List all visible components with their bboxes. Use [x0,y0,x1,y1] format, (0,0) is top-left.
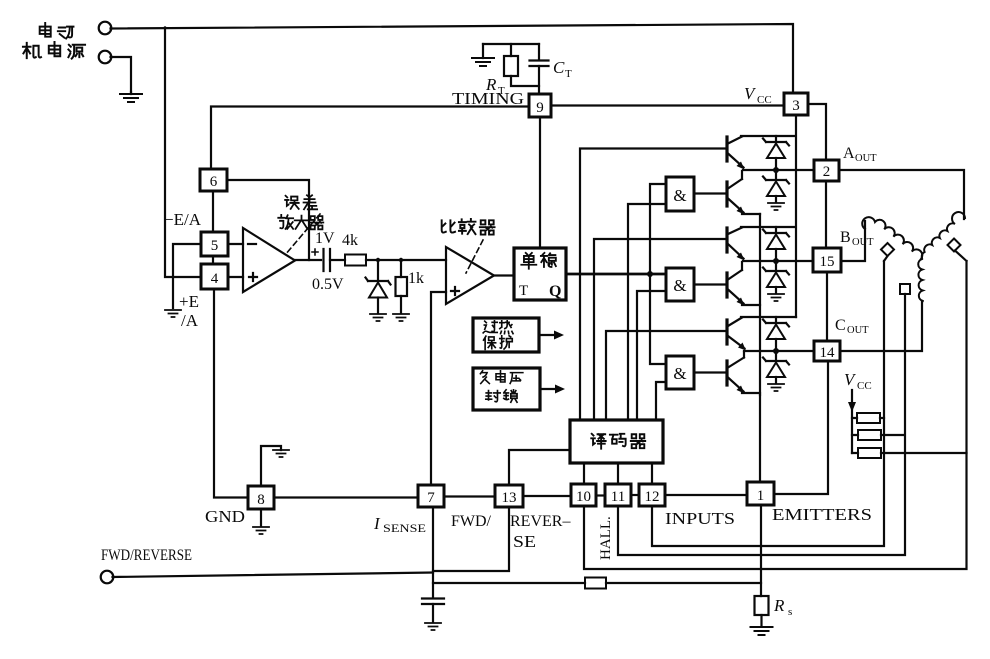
wire timing rail right to pin 3 [551,104,784,106]
pin 12 [639,484,665,506]
wire C output node line to pin 14 [744,350,814,352]
wire pin5-pin4 [212,256,214,264]
wire resistor to comparator [366,259,446,261]
zener DA2 [775,170,777,180]
resistor pullup R3 [858,448,881,458]
svg-text:13: 13 [502,490,517,506]
wire pin7 to pin13 [444,495,495,497]
wire pin 6 to timing rail [211,107,529,170]
svg-text:&: & [673,276,686,295]
comparator [446,247,494,304]
svg-text:2: 2 [823,164,831,180]
wire pin6-pin5 [212,191,214,232]
svg-text:C: C [835,317,846,334]
ground Rs [751,627,773,635]
svg-text:OUT: OUT [855,153,877,164]
svg-text:+E: +E [179,292,199,311]
wire pin12 to pin1 [665,494,747,496]
bead resistor [585,578,606,589]
svg-text:5: 5 [211,238,219,254]
pin 1 [747,482,774,505]
ground zener C [768,384,784,391]
svg-text:GND: GND [205,507,245,526]
svg-text:6: 6 [210,174,218,190]
wire gate C lower input from decoder [656,382,666,420]
wire monostable output [566,273,666,276]
AND gate A [666,177,694,211]
svg-text:CC: CC [857,380,872,392]
zener DB2 [775,261,777,271]
wire Vcc arrow [851,390,853,404]
label motor supply 电动机电源 [23,23,85,59]
wire pin13 to pin10 [523,495,571,497]
wire junction down to gate C input [650,274,666,364]
wire cap to resistor [330,259,345,261]
wire gate C output to Q3b base [694,371,726,373]
pin 5 [201,232,228,256]
resistor Rs [755,596,769,615]
wire pin9 down to monostable [539,117,541,248]
wire amp output [295,259,321,261]
node 1k [399,258,403,262]
op-amp error amplifier [243,228,295,292]
svg-text:s: s [788,606,792,618]
svg-text:10: 10 [576,489,591,505]
wire decoder to pin 12 [651,463,653,484]
zener DC1 [775,317,777,323]
motor winding center [918,259,923,301]
svg-text:REVER–: REVER– [510,513,571,530]
svg-text:&: & [673,186,686,205]
wire negative terminal [111,57,132,92]
ground pin8 top [273,450,289,457]
svg-text:1: 1 [757,488,765,504]
wire pin4 down to pin8 [214,289,248,498]
wire decoder to pin 11 [617,463,619,484]
svg-text:OUT: OUT [847,325,869,336]
node B out [773,258,779,264]
wire A output node line to pin 2 [743,169,814,171]
wire decoder to Q2a base [594,239,726,420]
wire gate A output to Q1b base [694,192,726,194]
wire junction up to gate A input [650,184,666,274]
wire pin15 to pin14 chain [826,272,828,341]
arrow lockout [540,388,556,390]
svg-text:1k: 1k [408,270,424,287]
svg-text:B: B [840,229,851,246]
ground +E/A [165,310,181,317]
svg-text:4: 4 [211,271,219,287]
wire gate A lower input from decoder [628,204,666,420]
wire pin3 to pin2 chain [808,104,826,160]
wire Q3a collector rail [741,316,796,318]
svg-text:OUT: OUT [852,237,874,248]
wire B output node line to pin 15 [743,260,813,262]
AND gate C [666,356,694,389]
terminal supply + [99,22,112,35]
ground 1k [393,314,409,321]
hall sensor diamond left [881,243,894,256]
pin 7 [418,485,444,507]
zener DB1 [775,227,777,233]
wire pin13 bottom junction [433,507,509,571]
ground pin8 bottom [253,527,269,534]
svg-text:V: V [744,84,757,103]
svg-text:4k: 4k [342,232,358,249]
node C out [773,348,779,354]
wire Q2b emitter to rail [742,304,760,306]
wire pin8 bottom [260,509,262,526]
AND gate B [666,268,694,301]
capacitor CT [538,44,540,60]
motor winding right [922,212,965,258]
wire hall center sense to pin 11 [618,294,905,555]
wire Q1b emitter to rail [742,213,760,215]
hall sensor square [900,284,910,294]
ground zener B [768,294,784,301]
lockout box 欠电压封锁 [473,368,540,410]
wire emitter rail [759,214,761,482]
svg-text:V: V [844,370,857,389]
wire pin8 to pin7 [274,496,418,498]
svg-text:9: 9 [536,100,544,116]
wire pin7 up to comparator plus [431,292,446,485]
wire pin13 to decoder left [509,450,570,485]
decoder 译码器 [570,420,663,463]
pin 6 [200,169,227,191]
pin 9 [529,94,551,117]
pin 4 [201,264,228,289]
terminal supply - [99,51,112,64]
zener DA1 [775,136,777,142]
wire COUT to motor [840,301,922,351]
svg-text:8: 8 [257,492,265,508]
svg-text:TIMING: TIMING [452,89,524,108]
transistor Q2a upper NPN [725,228,728,252]
ground zener A [768,203,784,210]
wire hall right sense to pin 10 [584,251,967,570]
terminal FWD/REVERSE [101,571,114,584]
svg-text:INPUTS: INPUTS [665,509,735,528]
svg-text:SE: SE [513,532,536,551]
svg-text:3: 3 [792,98,800,114]
svg-text:C: C [553,58,565,77]
wire top supply rail to Vcc pin 3 [111,24,794,93]
svg-text:15: 15 [820,254,835,270]
label 误差放大器 [278,195,323,229]
capacitor 1V 0.5V [324,249,331,271]
pin 8 [248,486,274,509]
wire hall left sense to pin 12 [652,256,888,546]
svg-text:FWD/REVERSE: FWD/REVERSE [101,547,192,564]
wire Vcc vertical to collector rails [795,115,797,317]
resistor pullup R1 [857,413,880,423]
svg-text:/A: /A [181,311,199,330]
wire Q3b emitter to rail [742,393,760,395]
node A out [773,167,779,173]
wire timing top [483,43,539,45]
monostable 单稳 [514,248,566,300]
node mono output [647,271,653,277]
svg-text:Q: Q [549,283,561,300]
svg-text:A: A [843,145,855,162]
wire pin8 top ground [261,446,281,486]
svg-text:−E/A: −E/A [164,210,202,229]
wire pin 5 input loop [173,244,201,308]
node 4k/zener [376,258,380,262]
wire pin11 to pin12 [631,494,639,496]
resistor RT [510,44,512,56]
ground zener [370,314,386,321]
wire BOUT to motor [841,221,865,261]
arrow protection [539,334,555,336]
wire decoder to pin 10 [583,463,585,484]
motor winding left [862,217,922,259]
wire comparator out [494,274,514,276]
wire pin1 down to Rs [760,505,762,596]
svg-text:I: I [373,514,381,533]
ground supply [120,92,142,102]
hall sensor diamond right [948,239,961,252]
wire Q2a collector rail [741,226,795,228]
wire hall bias line with bead [433,582,585,584]
transistor Q1a upper NPN [725,137,728,161]
wire FWD/REVERSE [113,573,434,578]
wire AOUT to motor [839,170,964,219]
pin 13 [495,485,523,507]
svg-text:HALL.: HALL. [598,516,614,560]
svg-text:SENSE: SENSE [383,523,426,535]
wire Q1a collector rail [741,135,795,137]
svg-text:1V: 1V [315,230,335,247]
pin 3 [784,93,808,115]
wire decoder to Q3a base [606,331,726,420]
svg-text:0.5V: 0.5V [312,276,344,293]
svg-text:T: T [565,68,572,80]
svg-text:FWD/: FWD/ [451,513,492,530]
svg-text:EMITTERS: EMITTERS [772,505,872,524]
svg-text:11: 11 [611,489,625,505]
resistor 4k [345,255,366,266]
wire decoder to Q1a base [580,149,726,421]
zener DC2 [775,351,777,361]
wire pin14 down to pin1 [774,361,828,494]
pin 2 [814,160,839,181]
wire gate B output to Q2b base [694,283,726,285]
pin 10 [571,484,596,506]
capacitor pin7 [422,599,444,605]
wire pin7 bottom [432,507,434,597]
label 比较器 [442,219,495,235]
transistor Q2b lower NPN [725,273,728,297]
svg-text:14: 14 [820,345,836,361]
wire pin10 to pin11 [596,494,605,496]
wire Rs bottom [760,615,762,626]
svg-text:T: T [519,283,528,299]
timing network ground [472,44,494,66]
zener diode 0.5V clamp [377,260,379,281]
resistor 1k [400,260,402,277]
wire left vertical from supply to pin 4 [165,28,201,278]
pin 14 [814,341,840,361]
wire pin2 to pin15 chain [825,181,827,248]
svg-text:7: 7 [427,490,435,506]
svg-text:&: & [673,364,686,383]
wire pin4 to amp plus [228,276,243,278]
transistor Q3a upper NPN [725,320,728,344]
pin 15 [813,248,841,272]
wire gate B lower input from decoder [637,291,666,420]
resistor pullup R2 [858,430,881,440]
svg-text:12: 12 [645,489,660,505]
transistor Q1b lower NPN [725,182,728,206]
wire pin6 feedback to amp output [227,180,309,260]
svg-text:CC: CC [757,94,772,106]
svg-text:R: R [773,596,785,615]
ground pin7 cap [425,623,441,630]
pin 11 [605,484,631,506]
protection box 过热保护 [473,318,539,352]
wire pin5 to amp minus [228,243,243,245]
transistor Q3b lower NPN [725,361,728,385]
